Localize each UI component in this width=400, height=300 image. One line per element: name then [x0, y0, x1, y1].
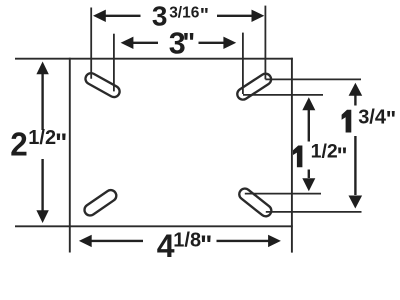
svg-text:": "	[337, 142, 348, 168]
svg-text:1/2: 1/2	[28, 127, 56, 149]
svg-text:": "	[386, 106, 396, 131]
svg-text:1/2: 1/2	[311, 140, 338, 162]
svg-text:2: 2	[10, 126, 28, 163]
svg-text:4: 4	[157, 228, 175, 264]
svg-text:": "	[182, 28, 195, 58]
svg-text:3/16: 3/16	[169, 5, 200, 22]
svg-text:": "	[200, 229, 212, 259]
svg-text:": "	[200, 6, 209, 27]
svg-text:1/8: 1/8	[173, 230, 201, 252]
svg-text:3: 3	[152, 0, 168, 31]
svg-text:3/4: 3/4	[358, 106, 387, 128]
svg-text:": "	[55, 128, 67, 158]
